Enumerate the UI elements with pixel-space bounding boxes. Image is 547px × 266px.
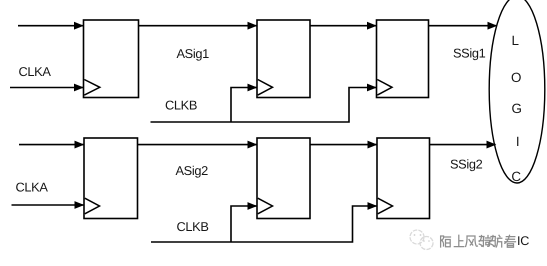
wire: SSig2 net U6.Q to LOGIC [430,144,496,146]
wire: CLKA into U4 clock [12,204,84,206]
clock pin triangle U2 [258,80,273,96]
wire: CLKB rail (bottom row) [151,206,377,242]
label LOGIC (vertical letters in ellipse) [511,33,522,184]
clock pin triangle U3 [377,80,392,96]
flip-flop U6 (bottom row, third stage, CLKB) [377,138,430,219]
svg-text:IC: IC [517,234,529,248]
clock pin triangle U6 [378,198,393,214]
watermark logo doodle [410,230,433,250]
glyph 陌 [441,236,451,247]
glyph 风 [466,236,478,247]
svg-text:CLKA: CLKA [19,64,52,79]
wire: CLKA into U1 clock [10,87,83,89]
clock pin triangle U5 [258,198,273,214]
watermark text: 陌上风骑驴看IC (approximated glyph strokes) [441,235,516,247]
glyph 驴 [491,235,502,247]
wire: U2.Q to U3.D [310,25,376,27]
svg-text:ASig1: ASig1 [177,46,210,61]
clock pin triangle U4 [85,198,100,214]
svg-text:CLKA: CLKA [16,180,49,195]
glyph 骑 [479,236,491,247]
svg-text:L: L [511,33,518,48]
svg-text:CLKB: CLKB [165,98,197,113]
flip-flop U3 (top row, third stage, CLKB) [377,20,429,98]
wire: CLKB branch to U2 clock [231,88,257,123]
wire: CLKB branch to U5 clock [231,206,257,242]
svg-text:G: G [511,101,521,116]
svg-text:I: I [516,134,519,149]
svg-text:CLKB: CLKB [177,219,209,234]
svg-text:C: C [511,169,521,184]
wire: ASig1 net U1.Q to U2.D [139,25,257,27]
glyph 看 [505,235,516,247]
wire: U5.Q to U6.D [310,144,377,146]
clock pin triangle U1 [84,80,100,96]
wire: SSig1 net U3.Q to LOGIC [429,25,497,27]
wire: ASig2 net U4.Q to U5.D [138,144,257,146]
flip-flop U4 (bottom row, first stage, CLKA domain) [84,138,138,219]
flip-flop U5 (bottom row, second stage, CLKB) [257,138,310,219]
svg-text:SSig2: SSig2 [450,157,483,172]
LOGIC block ellipse [489,0,545,183]
flip-flop U1 (top row, first stage, CLKA domain) [84,20,139,98]
svg-text:ASig2: ASig2 [176,163,209,178]
svg-text:SSig1: SSig1 [453,46,486,61]
wire: async data input 2 into U4 [19,144,84,146]
wire: async data input 1 into U1 [18,25,83,27]
flip-flop U2 (top row, second stage, CLKB) [257,20,310,98]
svg-text:O: O [511,70,521,85]
wire: CLKB rail (top row) [151,88,377,123]
glyph 上 [454,235,464,246]
